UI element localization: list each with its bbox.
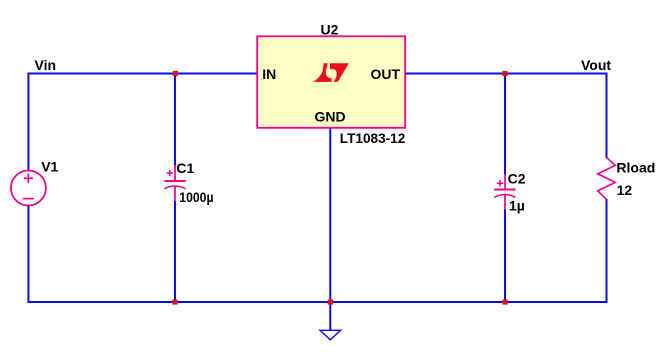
label V1: [41, 159, 58, 175]
wire ground stub: [329, 302, 331, 330]
pin GND: [314, 109, 345, 125]
junction (C2 top): [502, 71, 507, 76]
wire left vertical lower (V1 bottom to bottom rail): [27, 206, 29, 304]
svg-text:LT1083-12: LT1083-12: [340, 130, 406, 146]
junction (C2 bottom): [502, 299, 507, 304]
label C1: [176, 160, 194, 176]
svg-text:IN: IN: [262, 66, 276, 82]
wire right vertical upper (Vout corner to Rload top): [606, 73, 608, 159]
pin IN: [262, 66, 276, 82]
wire C1 branch upper: [174, 74, 176, 166]
label C2: [508, 171, 526, 187]
junction (ground): [328, 299, 333, 304]
wire C2 branch lower: [504, 210, 506, 304]
wire top rail right (OUT pin to Vout corner): [405, 73, 607, 75]
svg-text:U2: U2: [321, 22, 339, 38]
label Rload: [616, 159, 655, 175]
svg-text:Vout: Vout: [581, 57, 611, 73]
wire GND pin to bottom rail: [329, 128, 331, 303]
node Vin: [35, 57, 57, 73]
svg-text:V1: V1: [41, 159, 58, 175]
wire C2 branch upper: [504, 74, 506, 175]
resistor Rload: [598, 158, 616, 200]
svg-text:C1: C1: [176, 160, 194, 176]
value LT1083-12: [340, 130, 406, 146]
junction (C1 bottom): [172, 299, 177, 304]
svg-text:Rload: Rload: [616, 159, 655, 175]
value 1000µ: [179, 189, 213, 205]
svg-text:1µ: 1µ: [509, 198, 525, 214]
LT logo: [313, 63, 349, 82]
ground: [320, 330, 341, 340]
svg-text:1000µ: 1000µ: [179, 189, 213, 205]
value 12: [617, 182, 633, 198]
regulator U2 body: [257, 36, 405, 128]
svg-text:12: 12: [617, 182, 633, 198]
svg-text:GND: GND: [314, 109, 345, 125]
svg-text:Vin: Vin: [35, 57, 57, 73]
svg-text:OUT: OUT: [370, 66, 400, 82]
wire C1 branch lower: [174, 201, 176, 303]
pin OUT: [370, 66, 400, 82]
junction (C1 top): [173, 71, 178, 76]
label U2: [321, 22, 339, 38]
capacitor C1: [165, 165, 186, 201]
voltage source V1: [11, 171, 46, 206]
wire bottom rail: [28, 301, 606, 303]
wire right vertical lower (Rload bottom to bottom rail): [606, 199, 608, 303]
value 1µ: [509, 198, 525, 214]
svg-text:C2: C2: [508, 171, 526, 187]
capacitor C2: [494, 174, 515, 210]
wire top rail left (Vin to IN pin): [28, 73, 257, 75]
wire left vertical upper (Vin corner to V1 top): [27, 73, 29, 171]
node Vout: [581, 57, 611, 73]
